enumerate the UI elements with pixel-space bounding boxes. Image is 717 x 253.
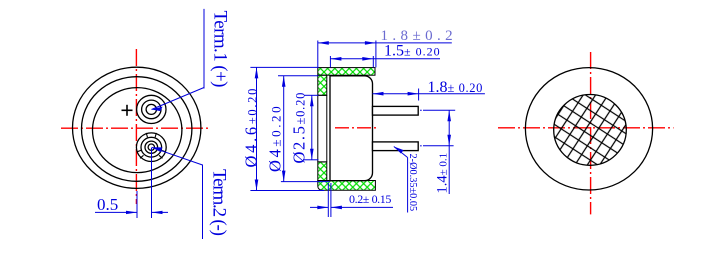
dim dia2.5 dimension line	[310, 95, 314, 160]
text 2-dia0.35+-0.05	[407, 154, 418, 212]
dim 1.4 extension lines	[423, 110, 455, 146]
terminal 2 notches	[137, 133, 165, 158]
text dia4.6+-0.20	[242, 87, 261, 168]
svg-text:0.5: 0.5	[97, 195, 118, 214]
hatched inner circle	[554, 94, 627, 165]
shell hatched: top flange	[318, 68, 375, 76]
svg-text:0.2± 0.15: 0.2± 0.15	[349, 192, 391, 206]
svg-text:2-Ø0.35±0.05: 2-Ø0.35±0.05	[407, 154, 418, 212]
dim 1.5 dimension line	[330, 57, 440, 61]
svg-text:Term.1 (+): Term.1 (+)	[210, 11, 231, 88]
text pin 1.8+-0.20	[428, 79, 483, 96]
text 1.5+-0.20	[384, 42, 441, 59]
wall hole edges	[318, 95, 327, 162]
pin2 centerline dot	[420, 145, 421, 147]
svg-text:1.8± 0.20: 1.8± 0.20	[428, 79, 483, 96]
label Term.2 (-)	[209, 169, 230, 236]
svg-text:Ø4±0.20: Ø4±0.20	[266, 104, 285, 172]
terminal 2 (bottom)	[136, 133, 166, 162]
centerline horizontal	[61, 127, 211, 129]
dim dia4.6 extension lines	[250, 67, 324, 190]
leader term2	[152, 147, 203, 239]
svg-text:1.5± 0.20: 1.5± 0.20	[384, 42, 441, 59]
shell hatched: wall lower	[318, 162, 327, 181]
dim 0.2 extension lines	[328, 183, 331, 217]
middle circle	[82, 77, 192, 182]
text 1.4+-0.1	[435, 153, 451, 194]
dim 0.5 dimension line	[95, 211, 168, 214]
dim 1.4 dimension line	[447, 110, 451, 194]
dim dia4 dimension line	[282, 76, 286, 182]
centerline vertical	[590, 52, 592, 214]
inner circle	[93, 88, 182, 173]
pin1 centerline dot	[420, 109, 421, 111]
plus sign	[122, 105, 133, 116]
label Term.1 (+)	[210, 11, 231, 88]
dim dia4 extension lines	[278, 76, 330, 182]
dim dia2.5 extension lines	[303, 95, 319, 160]
dim pin 1.8 dimension line	[373, 92, 485, 96]
shell hatched: wall upper	[318, 75, 327, 95]
terminal 1 (top)	[137, 95, 166, 123]
leader term1	[152, 9, 205, 111]
outer circle	[73, 67, 201, 188]
dim 1.5 extension line	[330, 56, 373, 67]
centerline horizontal	[498, 127, 674, 129]
outer circle	[525, 68, 652, 190]
text 0.5	[97, 195, 118, 214]
svg-text:1.8±0.2: 1.8±0.2	[381, 28, 458, 44]
dim 0.5 extension lines	[137, 148, 152, 218]
shell hatched: bottom flange	[318, 181, 376, 191]
svg-text:Term.2 (-): Term.2 (-)	[209, 169, 230, 236]
dim 1.8 top extension lines	[318, 41, 376, 68]
text 0.2+-0.15	[349, 192, 391, 206]
pin 1 (top)	[373, 106, 419, 115]
text dia2.5+-0.20	[290, 92, 309, 164]
leader 2-dia0.35	[394, 147, 408, 213]
centerline vertical	[135, 49, 137, 204]
dim 1.8 top dimension line	[318, 41, 452, 45]
dim pin 1.8 extension line	[418, 89, 420, 101]
text dia4+-0.20	[266, 104, 285, 172]
dim 0.2 dimension line	[310, 206, 393, 210]
dim dia4.6 dimension line	[255, 67, 259, 190]
body	[330, 76, 373, 181]
pin 2 (bottom)	[373, 142, 419, 151]
section centerline	[335, 127, 378, 129]
text 1.8+-0.2	[381, 28, 458, 44]
svg-text:1.4± 0.1: 1.4± 0.1	[435, 153, 451, 194]
